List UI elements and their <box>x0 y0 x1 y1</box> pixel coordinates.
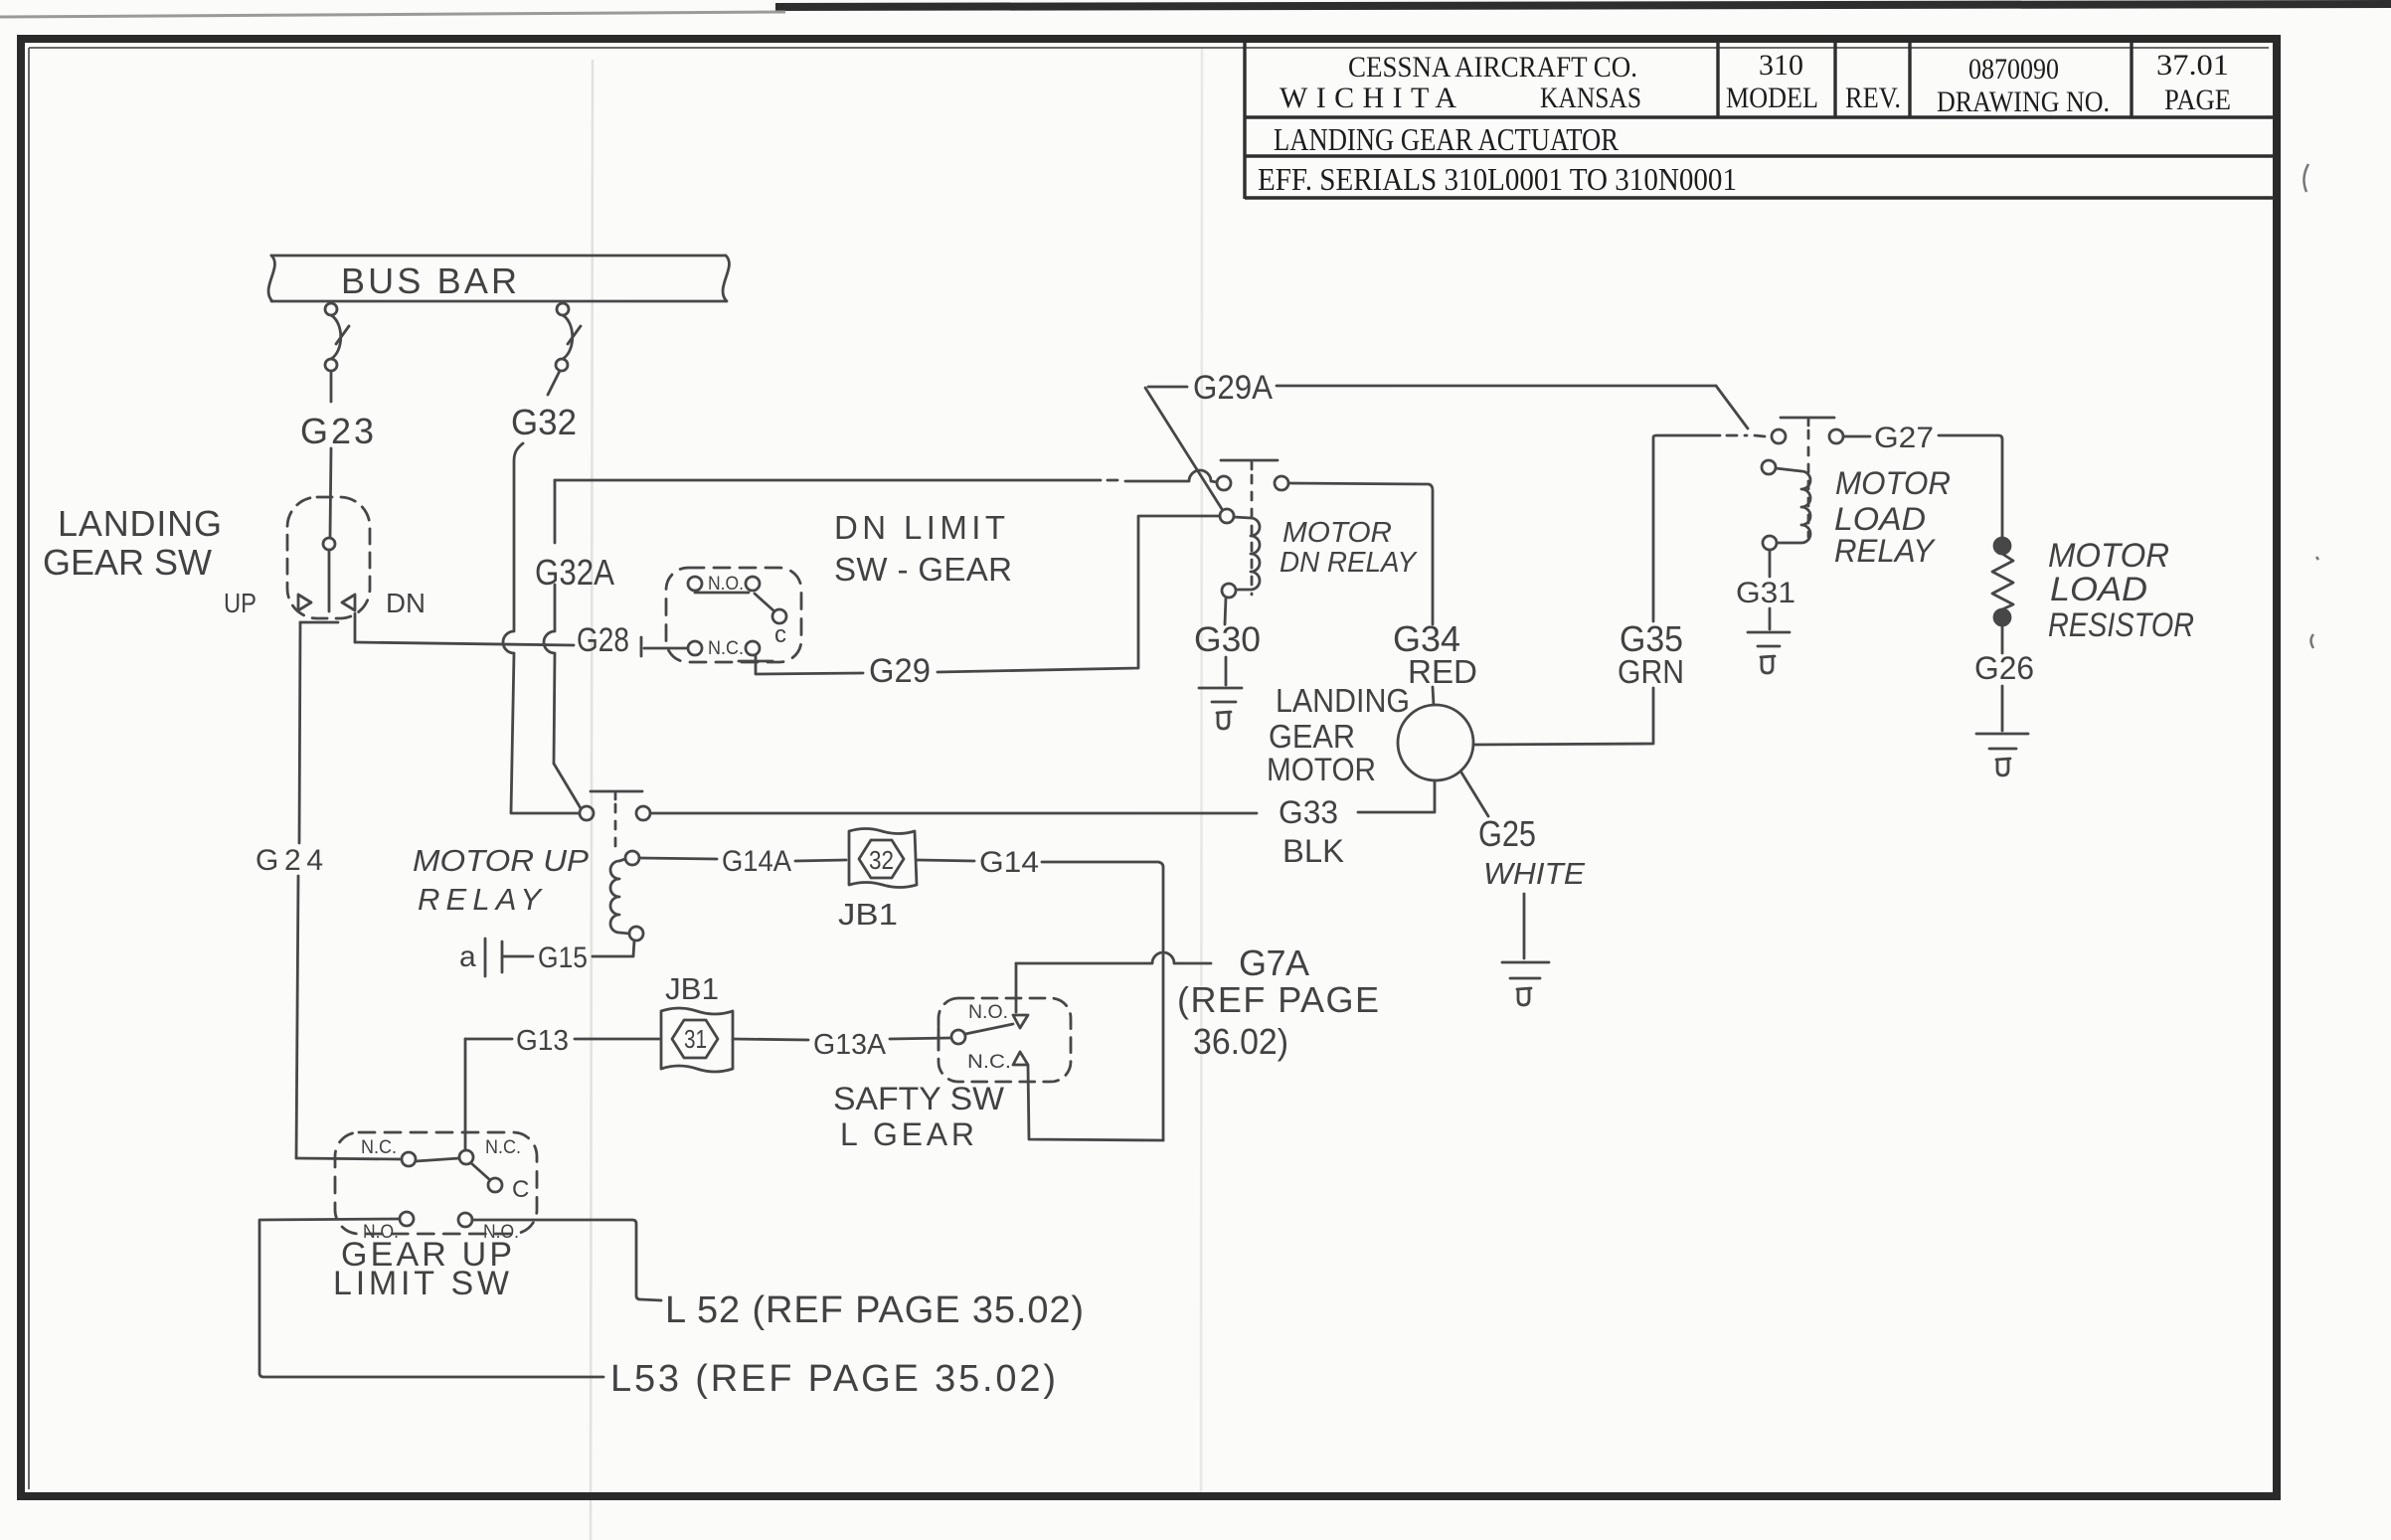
svg-text:G28: G28 <box>577 621 629 659</box>
wire G27 tick <box>1843 435 1870 438</box>
motor load relay coil bottom contact <box>1763 536 1777 550</box>
svg-text:G13A: G13A <box>813 1029 887 1061</box>
scan edge artifact top <box>775 4 2391 7</box>
wire L52 <box>472 1220 661 1300</box>
svg-text:G24: G24 <box>256 844 323 877</box>
wire G34 top <box>1288 483 1433 624</box>
gear up limit NC right contact <box>459 1150 473 1164</box>
hexagon 31 <box>672 1020 718 1058</box>
title block row line 3 <box>1245 196 2275 199</box>
capacitor G15 <box>485 939 502 976</box>
gear up limit NO left contact <box>400 1212 414 1226</box>
wire G13A to safety switch <box>890 1038 950 1039</box>
dn limit switch box <box>666 568 801 662</box>
circuit breaker G32 <box>556 303 581 371</box>
wire long horizontal to dn relay contact <box>555 470 1217 482</box>
svg-text:GEAR SW: GEAR SW <box>43 542 212 583</box>
wire G7A to NO contact <box>1015 963 1018 1012</box>
svg-text:C: C <box>512 1176 529 1203</box>
bus bar <box>268 256 729 301</box>
svg-text:G26: G26 <box>1974 650 2034 686</box>
svg-text:G33: G33 <box>1279 794 1338 830</box>
landing gear switch pole contact <box>323 538 335 550</box>
svg-text:(REF PAGE: (REF PAGE <box>1177 979 1379 1020</box>
svg-text:N.O.: N.O. <box>968 1002 1008 1023</box>
wire G26 lower <box>2001 686 2004 731</box>
title block row line 1 <box>1245 115 2275 118</box>
cell divider rev <box>1833 42 1836 117</box>
svg-text:CESSNA AIRCRAFT CO.: CESSNA AIRCRAFT CO. <box>1348 51 1637 84</box>
stray mark right margin <box>2311 557 2319 648</box>
motor load resistor zigzag <box>1992 554 2013 609</box>
svg-text:L GEAR: L GEAR <box>840 1116 974 1152</box>
svg-text:LANDING: LANDING <box>1276 682 1410 719</box>
svg-text:0870090: 0870090 <box>1968 53 2059 86</box>
svg-text:MOTOR UP: MOTOR UP <box>413 843 589 878</box>
switch bottom bar <box>300 621 338 624</box>
wire G29A diagonal arm <box>1145 388 1222 509</box>
wire G35 vertical <box>1653 435 1720 621</box>
motor up relay coil top contact <box>625 851 639 865</box>
svg-text:a: a <box>459 941 476 973</box>
svg-text:G32A: G32A <box>535 552 614 593</box>
wire G15 link <box>593 941 634 956</box>
title block row line 2 <box>1245 154 2275 157</box>
wire G14 right <box>1042 862 1163 1140</box>
landing gear switch box <box>287 497 370 618</box>
svg-text:LOAD: LOAD <box>2050 571 2147 608</box>
wire G31 lower <box>1769 608 1772 629</box>
wire L53 loop <box>259 1219 603 1377</box>
wire G13 corner <box>464 1039 467 1150</box>
svg-text:310: 310 <box>1759 49 1803 82</box>
motor up relay armature dashed <box>614 804 617 853</box>
svg-text:DN: DN <box>386 588 426 618</box>
gear up limit arm <box>471 1163 490 1180</box>
wire safety NC loop <box>1028 1066 1163 1140</box>
svg-text:G23: G23 <box>300 411 374 451</box>
svg-text:N.C.: N.C. <box>708 638 744 659</box>
safety switch moving contact <box>951 1030 965 1044</box>
svg-text:LANDING: LANDING <box>58 503 222 544</box>
svg-text:G27: G27 <box>1874 422 1934 454</box>
svg-text:MOTOR: MOTOR <box>1835 465 1951 501</box>
dn limit NC right contact <box>746 641 760 655</box>
cell divider page <box>2130 42 2133 117</box>
svg-text:G30: G30 <box>1194 620 1261 659</box>
svg-text:G32: G32 <box>511 402 577 442</box>
wire G13 mid <box>575 1038 659 1041</box>
wire G29A left tick <box>1148 386 1187 389</box>
wire G29 to dn relay <box>938 516 1220 672</box>
svg-text:LIMIT SW: LIMIT SW <box>333 1265 509 1302</box>
up relay arm diagonal <box>554 764 581 808</box>
motor load relay coil top contact <box>1762 460 1776 474</box>
svg-text:BLK: BLK <box>1282 833 1344 869</box>
svg-text:WHITE: WHITE <box>1483 856 1585 891</box>
wire G35 motor to corner <box>1473 688 1653 745</box>
wire G24 to limit switch <box>296 1158 402 1159</box>
up throw arrow <box>298 595 311 610</box>
svg-text:RELAY: RELAY <box>418 882 543 917</box>
svg-text:G14A: G14A <box>722 845 791 878</box>
svg-text:32: 32 <box>869 845 894 875</box>
svg-text:G13: G13 <box>516 1025 569 1057</box>
wire G13 left <box>465 1038 512 1041</box>
ground G30 <box>1199 688 1242 702</box>
wire G32A vertical <box>503 443 523 812</box>
svg-text:N.C.: N.C. <box>361 1137 397 1158</box>
motor load relay moving contact <box>1772 429 1786 443</box>
wire switch pole <box>328 550 331 611</box>
wire G30 upper <box>1225 598 1226 624</box>
svg-text:SAFTY SW: SAFTY SW <box>833 1081 1005 1116</box>
wire dn limit feed <box>644 647 687 650</box>
svg-text:RESISTOR: RESISTOR <box>2048 606 2194 644</box>
svg-text:G29A: G29A <box>1193 369 1273 407</box>
svg-text:N.C.: N.C. <box>485 1137 521 1158</box>
svg-text:37.01: 37.01 <box>2156 49 2229 82</box>
dn limit NO right contact <box>746 577 760 591</box>
wire G29A horizontal <box>1277 385 1716 388</box>
motor dn relay right contact <box>1275 476 1288 490</box>
wire G30 lower <box>1225 657 1228 685</box>
svg-text:EFF. SERIALS 310L0001 TO 31: EFF. SERIALS 310L0001 TO 310N0001 <box>1258 161 1737 197</box>
motor load relay T bar <box>1781 418 1834 426</box>
wire G14 left <box>918 860 974 861</box>
svg-text:PAGE: PAGE <box>2164 84 2231 116</box>
svg-text:L53 (REF PAGE 35.02): L53 (REF PAGE 35.02) <box>610 1358 1056 1400</box>
svg-text:L 52 (REF PAGE 35.02): L 52 (REF PAGE 35.02) <box>665 1289 1084 1331</box>
wire G23 upper <box>330 371 333 402</box>
svg-text:G14: G14 <box>979 846 1039 879</box>
motor load relay coil <box>1776 468 1810 543</box>
circuit breaker G23 <box>325 303 349 371</box>
motor up relay coil <box>610 859 629 934</box>
svg-text:MOTOR: MOTOR <box>1267 752 1376 787</box>
landing gear motor <box>1398 705 1473 780</box>
cell divider drawing <box>1908 42 1911 117</box>
ground G31 <box>1748 632 1790 646</box>
motor dn relay T bar <box>1221 460 1278 469</box>
junction box JB1-32 <box>849 829 917 888</box>
svg-text:G25: G25 <box>1478 813 1536 854</box>
dn limit switch arm <box>755 594 774 611</box>
wire G29A diagonal right <box>1716 386 1748 428</box>
wire G29 drop <box>756 656 863 674</box>
svg-text:SW - GEAR: SW - GEAR <box>834 551 1012 588</box>
fold crease right <box>1201 48 1202 1496</box>
safety switch NC contact triangle <box>1013 1052 1028 1065</box>
wire G23 lower <box>330 448 331 537</box>
gear up limit common contact <box>488 1178 502 1192</box>
svg-text:N.O.: N.O. <box>708 574 744 595</box>
ground G25 white <box>1502 962 1549 978</box>
wire G24 lower <box>296 876 298 1158</box>
tick safety box edge <box>938 1028 940 1050</box>
wire G26 upper <box>2001 625 2004 653</box>
svg-text:UP: UP <box>224 588 256 618</box>
motor up relay right contact <box>636 806 650 820</box>
wire G35 dash-dot to load relay <box>1727 435 1765 436</box>
wire dn drop <box>354 613 357 642</box>
safety switch NO contact triangle <box>1013 1015 1028 1028</box>
motor dn relay coil <box>1234 517 1260 590</box>
safety switch arm <box>965 1024 1013 1034</box>
svg-text:GRN: GRN <box>1618 653 1684 690</box>
hexagon 32 <box>859 840 904 878</box>
cell divider model <box>1716 42 1719 117</box>
wire G33 horizontal <box>650 812 1257 815</box>
svg-text:G15: G15 <box>538 941 588 974</box>
wire G15 tick <box>503 955 533 958</box>
dn limit common contact <box>772 609 786 623</box>
title block left edge <box>1243 42 1246 199</box>
gear up limit NC left contact <box>402 1152 416 1166</box>
svg-text:36.02): 36.02) <box>1193 1021 1288 1062</box>
wire G7A horizontal <box>1016 952 1211 963</box>
svg-text:RELAY: RELAY <box>1834 533 1937 569</box>
motor up relay left contact <box>580 806 594 820</box>
wire G33 right <box>1358 780 1435 812</box>
svg-text:G29: G29 <box>869 652 931 690</box>
junction box JB1-31 <box>661 1008 733 1072</box>
dn throw arrow <box>342 595 355 610</box>
motor load resistor bottom node <box>1994 609 2010 625</box>
motor dn relay coil bottom contact <box>1222 584 1236 598</box>
svg-text:KANSAS: KANSAS <box>1540 82 1641 114</box>
svg-text:c: c <box>774 621 786 648</box>
dn limit NC left contact <box>688 641 702 655</box>
wire G34 to motor <box>1433 687 1434 705</box>
gear up limit NO right contact <box>458 1213 472 1227</box>
svg-text:RED: RED <box>1408 653 1477 690</box>
motor load relay armature dashed <box>1807 430 1810 537</box>
safety switch box <box>939 998 1071 1082</box>
svg-text:G7A: G7A <box>1239 942 1309 983</box>
svg-text:G31: G31 <box>1736 577 1795 609</box>
svg-text:JB1: JB1 <box>838 897 898 932</box>
svg-text:31: 31 <box>684 1024 707 1054</box>
gear up limit switch box <box>335 1132 537 1234</box>
motor dn relay armature dashed <box>1251 475 1254 595</box>
motor up relay coil bottom contact <box>629 927 643 941</box>
wire G13A left <box>733 1039 808 1040</box>
svg-text:N.C.: N.C. <box>967 1052 1011 1073</box>
wire G32 diagonal lead <box>548 371 560 395</box>
motor dn relay moving contact <box>1220 509 1234 523</box>
svg-text:DN RELAY: DN RELAY <box>1280 547 1419 579</box>
wire G28 horizontal <box>355 642 574 645</box>
wire G14A right <box>795 860 846 861</box>
motor dn relay left contact <box>1217 476 1231 490</box>
dn limit NO bar <box>695 592 749 595</box>
motor load relay right contact <box>1829 429 1843 443</box>
dn limit NC underline <box>739 660 772 663</box>
wire G27 to resistor <box>1939 435 2002 537</box>
motor load resistor top node <box>1994 538 2010 554</box>
wire G14A left <box>639 858 717 859</box>
page border inner thin <box>29 47 2269 49</box>
gear up limit NC bar <box>416 1158 459 1161</box>
wire white ground drop <box>1523 894 1526 958</box>
wire G31 upper <box>1769 550 1772 577</box>
svg-text:LANDING GEAR ACTUATOR: LANDING GEAR ACTUATOR <box>1274 121 1620 157</box>
svg-text:JB1: JB1 <box>665 971 719 1006</box>
wire G25 diagonal <box>1461 772 1488 816</box>
svg-text:MODEL: MODEL <box>1726 82 1818 114</box>
wire G24 upper <box>299 622 300 843</box>
tick after G28 <box>640 637 643 656</box>
dn limit NO left contact <box>688 577 702 591</box>
svg-text:MOTOR: MOTOR <box>1282 517 1392 549</box>
svg-text:DRAWING NO.: DRAWING NO. <box>1937 86 2110 118</box>
motor up relay T bar <box>591 791 642 799</box>
fold crease left <box>591 60 593 1540</box>
svg-text:BUS BAR: BUS BAR <box>341 260 523 301</box>
svg-text:REV.: REV. <box>1845 82 1901 114</box>
svg-text:MOTOR: MOTOR <box>2048 537 2169 575</box>
svg-text:GEAR: GEAR <box>1269 718 1355 755</box>
ground G26 <box>1976 734 2028 749</box>
wire G32A to up relay contact <box>511 812 579 815</box>
svg-text:LOAD: LOAD <box>1834 501 1926 537</box>
wire up relay arm feed <box>544 480 555 764</box>
